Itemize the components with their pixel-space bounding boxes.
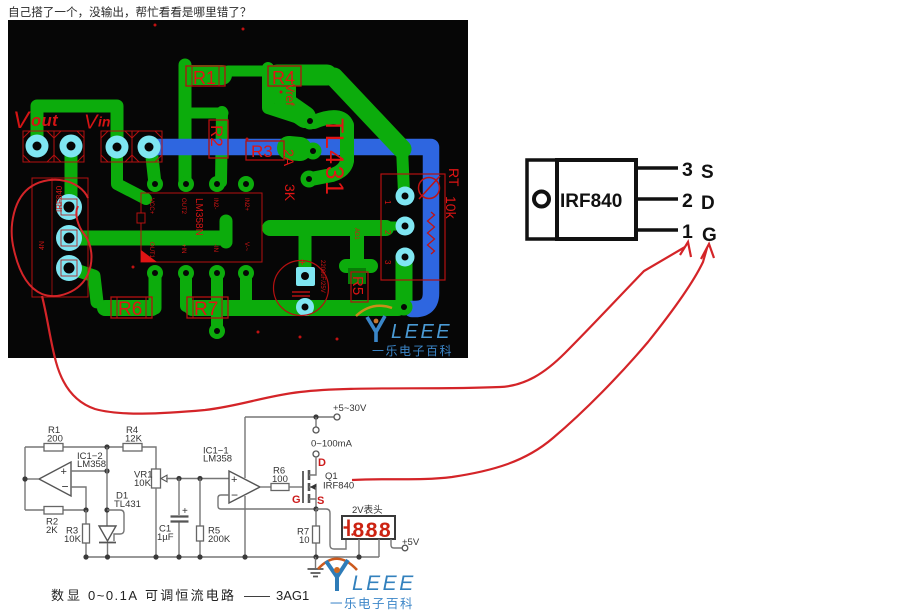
terminal +5V	[402, 545, 408, 551]
svg-text:0~100mA: 0~100mA	[311, 439, 353, 450]
terminal +5~30V	[334, 414, 340, 420]
node Vref-D1 junction	[104, 507, 109, 512]
IC LM358N pads bottom row	[147, 265, 254, 281]
cyan pads left connector IRF840	[56, 194, 82, 281]
cyan pads right connector RT	[396, 187, 415, 267]
wire bottom ground rail	[86, 556, 379, 558]
node R5 top	[197, 476, 202, 481]
red arrowhead 2	[701, 244, 714, 259]
svg-text:VCC+: VCC+	[148, 198, 154, 215]
svg-text:G: G	[292, 494, 301, 506]
resistor R4	[123, 444, 142, 452]
wire VR1 wiper to op-amp1 plus	[166, 478, 229, 480]
svg-text:888: 888	[353, 519, 393, 542]
silkscreen resistor R1 box	[186, 66, 225, 88]
svg-text:R3: R3	[251, 142, 273, 161]
wire Vout pad2 to connector pin1	[65, 146, 78, 207]
svg-text:TL431: TL431	[320, 118, 348, 196]
svg-text:3K: 3K	[282, 184, 298, 202]
resistor R1	[44, 444, 63, 452]
svg-text:OUT2: OUT2	[180, 198, 186, 215]
svg-text:V-~: V-~	[243, 242, 249, 252]
wire meter +5V lead	[391, 539, 402, 548]
node C1 top	[176, 476, 181, 481]
svg-text:10K: 10K	[134, 478, 152, 489]
wire Vin pad3 elbow	[117, 150, 146, 199]
wire TL431 loop trace over blue	[311, 117, 347, 179]
wire source to meter	[316, 509, 346, 549]
wire op-amp1 minus feedback to source	[218, 495, 316, 509]
wire op-amp2 plus input	[71, 470, 107, 472]
wire op-amp2 minus input	[71, 487, 86, 510]
wire R6 to gate	[289, 486, 303, 488]
wire op-amp2 output to left rail	[25, 478, 39, 480]
svg-text:10k: 10k	[443, 196, 459, 220]
svg-text:S: S	[317, 495, 324, 507]
silkscreen resistor R7 box	[187, 297, 228, 320]
svg-text:+: +	[182, 506, 188, 517]
node R1-R4 junction	[104, 444, 109, 449]
svg-text:2: 2	[682, 190, 693, 212]
svg-text:LM358: LM358	[77, 459, 106, 470]
resistor R2	[44, 507, 63, 515]
wire R7 left vertical	[180, 273, 192, 306]
svg-text:R7: R7	[194, 299, 218, 320]
resistor R7	[315, 509, 317, 557]
wire neck trace R1 to elbow	[228, 66, 264, 77]
wire left horizontal bar to IC	[70, 231, 221, 246]
wire green bar behind 2A label	[289, 148, 300, 149]
wire top row R1-R4	[25, 447, 156, 469]
node supply branch	[313, 414, 318, 419]
wire top supply rail	[245, 416, 334, 418]
wire R2 vertical trace	[221, 112, 222, 182]
wire Vout-Vin top U trace	[37, 106, 117, 147]
svg-text:IN2-: IN2-	[212, 198, 218, 209]
wire capacitor branch	[299, 234, 312, 266]
wire stub up from left bar	[220, 221, 233, 242]
svg-text:一乐电子百科: 一乐电子百科	[372, 344, 453, 358]
wire neck to RT pad2	[386, 222, 403, 231]
wire RT pad3 down	[396, 257, 413, 301]
package tab	[527, 160, 557, 239]
svg-text:D: D	[318, 457, 326, 469]
red arrowhead 1	[680, 242, 691, 257]
pin 2 lead	[638, 197, 678, 201]
svg-text:2K: 2K	[46, 525, 58, 536]
svg-text:S: S	[701, 162, 714, 183]
resistor R5	[199, 479, 201, 558]
svg-text:+: +	[299, 257, 305, 269]
svg-text:2200uF/25V: 2200uF/25V	[319, 260, 325, 293]
svg-text:IRF840: IRF840	[323, 481, 354, 492]
svg-text:数显: 数显	[51, 588, 83, 603]
svg-text:LM358: LM358	[203, 454, 232, 465]
svg-text:TL431: TL431	[114, 499, 141, 510]
silkscreen resistor R6 box	[111, 297, 152, 320]
svg-text:1: 1	[682, 221, 693, 243]
package mounting hole	[534, 192, 549, 207]
diode D1 TL431	[99, 526, 116, 541]
svg-text:+: +	[61, 466, 67, 478]
PCB board photo	[8, 20, 468, 358]
capacitor C pads	[296, 267, 315, 316]
bottom green pads	[209, 299, 413, 340]
node source junction	[313, 506, 318, 511]
wire connector pin3 elbow to R6	[70, 268, 97, 302]
wire R7 bar and bottom bar	[192, 300, 398, 316]
node plus input vertical	[104, 468, 109, 473]
silkscreen connector boxes Vout Vin	[23, 131, 162, 162]
svg-text:in: in	[98, 114, 110, 130]
TL431 transistor pads	[301, 113, 322, 188]
svg-text:AD1: AD1	[353, 228, 359, 240]
silkscreen resistor R3 box	[246, 141, 284, 161]
svg-text:D: D	[701, 193, 715, 214]
wire R2 row	[25, 509, 86, 511]
svg-text:OUT1: OUT1	[148, 242, 154, 259]
silkscreen resistor R5 box	[349, 272, 368, 302]
wire center vertical Vref	[106, 447, 108, 526]
silkscreen right connector RT footprint	[353, 168, 462, 280]
svg-text:200: 200	[47, 434, 63, 445]
ammeter terminals 0~100mA	[315, 417, 317, 427]
silkscreen resistor R4 box	[268, 66, 301, 88]
svg-text:200K: 200K	[208, 534, 231, 545]
svg-text:R6: R6	[118, 299, 142, 320]
svg-text:2: 2	[383, 230, 392, 235]
wire R2 stub	[186, 108, 223, 119]
svg-text:LEEE: LEEE	[391, 321, 452, 343]
svg-text:可调恒流电路: 可调恒流电路	[145, 588, 236, 603]
cyan pads Vout Vin	[26, 135, 161, 159]
transistor package IRF840 pinout	[527, 159, 717, 246]
svg-text:R2: R2	[207, 125, 226, 147]
svg-text:−: −	[62, 480, 69, 494]
capacitor C1	[178, 479, 180, 516]
transistor Q1 IRF840	[302, 471, 304, 503]
svg-text:LM358N: LM358N	[193, 198, 204, 236]
svg-text:R1: R1	[193, 68, 216, 88]
red annotation hand-drawn ellipse around left connector	[12, 180, 92, 296]
svg-text:IRF840: IRF840	[560, 191, 622, 212]
silkscreen Vout label	[13, 107, 59, 134]
svg-text:Vref: Vref	[283, 84, 297, 106]
red annotation curve from PCB connector to pin 1	[42, 247, 685, 414]
svg-text:4N: 4N	[39, 241, 46, 250]
silkscreen left connector IRF840 footprint	[32, 178, 88, 297]
wire R6 bar	[105, 300, 152, 316]
svg-text:IN2+: IN2+	[243, 198, 249, 211]
svg-text:+5V: +5V	[402, 537, 420, 548]
svg-text:3: 3	[682, 159, 693, 181]
svg-text:3: 3	[383, 260, 392, 265]
wire vertical to RT pad1 over blue	[402, 148, 404, 193]
svg-text:+5~30V: +5~30V	[333, 403, 367, 414]
wire big diagonal from R4 over blue	[334, 77, 402, 149]
wire R5 branch	[346, 234, 371, 266]
blue top-layer trace	[152, 147, 431, 309]
svg-text:12K: 12K	[125, 434, 143, 445]
wire stub pad4 down to R7 bar	[240, 273, 252, 302]
red annotation curve from schematic Q1 to pin 1	[352, 248, 707, 480]
svg-text:1: 1	[383, 200, 392, 205]
svg-text:1µF: 1µF	[157, 532, 174, 543]
resistor R3	[85, 510, 87, 557]
silkscreen IC LM358N outline	[137, 193, 262, 262]
wire main middle bar	[270, 220, 386, 236]
svg-text:3AG1: 3AG1	[276, 588, 309, 603]
resistor R6	[271, 484, 289, 491]
svg-text:V: V	[84, 112, 99, 134]
op-amp U2 IC1-2	[39, 462, 71, 496]
svg-text:10: 10	[299, 535, 310, 546]
wire output op-amp1 to R6	[260, 486, 271, 488]
svg-text:RT: RT	[446, 168, 462, 187]
wire Vin pad4 to VCC pad	[151, 148, 155, 184]
potentiometer VR1	[152, 469, 161, 488]
wire R4 horizontal trace	[277, 65, 327, 86]
package body	[557, 160, 636, 239]
svg-text:+IN: +IN	[180, 244, 186, 254]
wire VCC vertical below IC	[149, 273, 162, 308]
svg-text:−: −	[231, 488, 238, 502]
PCB green traces	[37, 65, 404, 330]
svg-text:out: out	[31, 112, 59, 130]
wire R1 vertical trace	[179, 65, 192, 181]
svg-text:-IN: -IN	[212, 244, 218, 252]
wire R1 horizontal trace	[189, 65, 222, 85]
wire mid vertical to bottom pad	[211, 273, 223, 330]
IC LM358N pads top row	[147, 176, 254, 192]
R5 pad rectangle dark green	[348, 268, 366, 284]
svg-text:——: ——	[244, 588, 270, 603]
svg-text:R5: R5	[349, 276, 366, 295]
node left rail output	[22, 476, 27, 481]
wire meter ground stubs	[359, 539, 379, 557]
ground	[315, 557, 317, 568]
PCB watermark YLEEE logo	[356, 306, 453, 358]
wire left rail	[24, 447, 26, 510]
svg-text:100: 100	[272, 474, 288, 485]
svg-text:0~0.1A: 0~0.1A	[88, 588, 139, 603]
node rail junctions	[83, 554, 88, 559]
svg-text:2A: 2A	[281, 149, 297, 167]
silkscreen Vin label	[84, 112, 110, 134]
svg-text:10K: 10K	[64, 534, 82, 545]
svg-text:2V表头: 2V表头	[352, 504, 383, 516]
silkscreen misc red dots	[132, 24, 339, 341]
svg-text:V: V	[13, 107, 31, 134]
silkscreen electrolytic capacitor outline	[274, 257, 329, 316]
silkscreen resistor R2 box	[207, 120, 228, 158]
svg-text:+: +	[231, 474, 237, 486]
svg-text:LEEE: LEEE	[352, 572, 416, 595]
node R2-R3 junction	[83, 507, 88, 512]
bottom watermark YLEEE logo	[318, 559, 416, 611]
pin 1 lead	[638, 228, 678, 232]
wire elbow down	[268, 68, 308, 121]
svg-text:一乐电子百科: 一乐电子百科	[330, 597, 414, 611]
pin 3 lead	[638, 166, 678, 170]
op-amp U1 IC1-1	[244, 417, 246, 557]
